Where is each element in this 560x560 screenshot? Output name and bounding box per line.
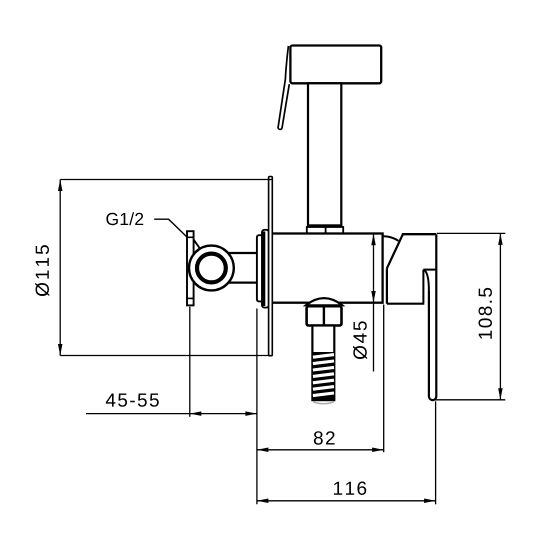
lever cap arc bbox=[383, 236, 399, 241]
thread stripe 5 bbox=[313, 380, 334, 383]
inlet pipe to in-wall valve bbox=[225, 252, 258, 254]
hand shower handle (wand grip) bbox=[308, 83, 341, 225]
dimension Ø115 text bbox=[35, 245, 49, 296]
mixer body bbox=[272, 234, 383, 303]
lever base bottom edge bbox=[387, 303, 424, 305]
hose threaded shank bbox=[312, 326, 334, 401]
label G1/2 leader bbox=[154, 219, 187, 237]
flange bottom tab line bbox=[187, 297, 194, 299]
thread stripe 3 bbox=[313, 367, 334, 370]
dimension 116 arrow left bbox=[257, 499, 269, 504]
thread stripe 2 bbox=[313, 361, 334, 364]
valve body inner ring bbox=[197, 254, 226, 283]
dimension 108.5 extension line top bbox=[437, 232, 505, 234]
dimension 116 line bbox=[257, 500, 436, 502]
hand shower head body bbox=[290, 46, 381, 84]
handle connection nut facet line bbox=[325, 227, 327, 234]
dimension 82 text bbox=[314, 431, 335, 445]
dimension 45-55 extension line left bbox=[189, 307, 191, 417]
lever bar fillet bbox=[423, 270, 429, 291]
thread stripe 4 bbox=[313, 374, 334, 377]
lever top edge bbox=[402, 233, 436, 235]
dimension 82 arrow left bbox=[257, 448, 269, 453]
lever base slant edge bbox=[387, 234, 403, 268]
lever base left edge bbox=[386, 268, 388, 303]
dimension 108.5 arrow bottom bbox=[498, 388, 503, 400]
dimension 116 extension line right bbox=[435, 401, 437, 504]
thread bottom shadow bbox=[313, 402, 334, 404]
dimension 108.5 arrow top bbox=[498, 233, 503, 245]
lever bar outer edge and bottom cap bbox=[429, 234, 436, 400]
dimension 82 line bbox=[257, 449, 384, 451]
wall cover plate bbox=[269, 177, 273, 356]
block B thick seam bbox=[262, 232, 265, 307]
dimension Ø115 extension line bottom bbox=[60, 355, 268, 357]
dimension 116 arrow right bbox=[424, 499, 436, 504]
hand shower trigger lever bbox=[278, 46, 289, 129]
dimension 45-55 arrow left bbox=[190, 411, 202, 416]
lever base right edge bbox=[422, 270, 424, 303]
in-wall connector block B bbox=[262, 230, 269, 308]
inlet pipe lower edge bbox=[225, 282, 258, 284]
valve mounting flange bbox=[187, 231, 194, 305]
dimension 116 text bbox=[334, 482, 366, 496]
shared extension line left (82/116/45-55) bbox=[256, 309, 258, 505]
dimension 82 arrow right bbox=[372, 448, 384, 453]
handle connection nut bbox=[307, 227, 343, 234]
thread stripe 6 bbox=[313, 387, 334, 390]
hose hex nut facet line bbox=[323, 306, 325, 325]
dimension Ø115 extension line top bbox=[60, 179, 271, 181]
dimension Ø45 line bbox=[373, 234, 375, 372]
dimension 108.5 text bbox=[479, 288, 493, 339]
dimension 82 extension line right bbox=[383, 305, 385, 453]
dimension Ø115 arrow bottom bbox=[58, 344, 63, 356]
dimension Ø115 arrow top bbox=[58, 180, 63, 192]
label G1/2 text bbox=[106, 212, 143, 225]
dimension Ø45 text bbox=[353, 321, 367, 359]
flange top tab line bbox=[187, 236, 194, 238]
hose nut dome cap bbox=[306, 298, 342, 305]
dimension 108.5 extension line bottom bbox=[434, 399, 506, 401]
thread zone bbox=[312, 352, 335, 400]
hose hex nut bbox=[307, 306, 342, 325]
dimension Ø45 arrow bottom bbox=[371, 291, 376, 303]
dimension 45-55 text bbox=[106, 394, 159, 407]
thread stripe 7 bbox=[313, 393, 334, 396]
dimension 45-55 arrow right bbox=[245, 411, 257, 416]
dimension 108.5 line bbox=[499, 233, 501, 399]
thread stripe 1 bbox=[313, 355, 334, 358]
dimension Ø45 arrow top bbox=[371, 234, 376, 246]
lever ledge bbox=[423, 269, 436, 271]
in-wall connector block A bbox=[257, 235, 266, 301]
dimension 45-55 line bbox=[86, 413, 257, 415]
dimension Ø115 line bbox=[59, 180, 61, 356]
flange diagonal edge bbox=[193, 239, 200, 249]
valve body outer circle bbox=[189, 246, 234, 291]
